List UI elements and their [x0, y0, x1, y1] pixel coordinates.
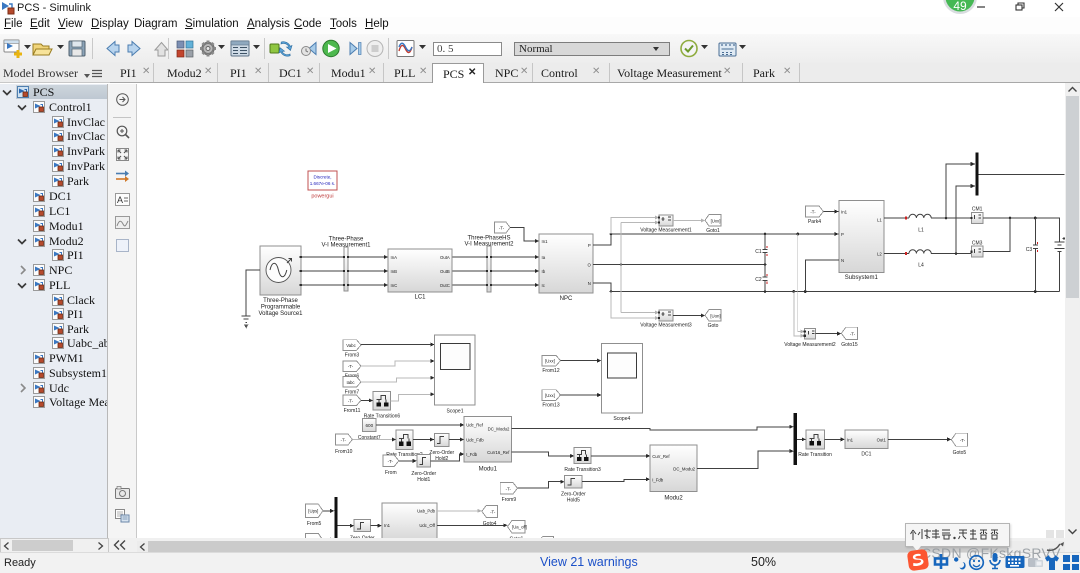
- svg-text:-T-: -T-: [341, 438, 347, 443]
- svg-text:A: A: [117, 195, 123, 205]
- svg-text:InB: InB: [391, 269, 398, 274]
- svg-text:Voltage Measurement2: Voltage Measurement2: [784, 342, 836, 348]
- svg-text:Three-Phase: Three-Phase: [263, 298, 298, 304]
- svg-text:Hold5: Hold5: [567, 497, 580, 503]
- svg-text:In1: In1: [847, 437, 854, 442]
- svg-text:From12: From12: [542, 368, 559, 374]
- svg-text:600: 600: [365, 423, 373, 428]
- svg-text:DC1: DC1: [861, 451, 871, 457]
- svg-text:-T-: -T-: [348, 398, 354, 403]
- svg-text:Uab_Pdb: Uab_Pdb: [417, 509, 436, 514]
- svg-text:CM3: CM3: [972, 240, 983, 246]
- svg-text:I_Fdb: I_Fdb: [466, 452, 478, 457]
- svg-text:DC_Modu2: DC_Modu2: [488, 427, 510, 432]
- svg-text:-T-: -T-: [388, 459, 394, 464]
- svg-text:Curr16_Ref: Curr16_Ref: [487, 450, 510, 455]
- svg-text:powergui: powergui: [311, 194, 333, 200]
- svg-text:Rate Transition: Rate Transition: [798, 452, 832, 458]
- svg-text:DC_Modu2: DC_Modu2: [673, 466, 695, 471]
- svg-text:Voltage Source1: Voltage Source1: [258, 311, 303, 317]
- svg-text:In1: In1: [841, 210, 848, 215]
- svg-text:Goto1: Goto1: [706, 228, 720, 234]
- svg-text:Goto4: Goto4: [483, 521, 497, 527]
- svg-text:In1: In1: [542, 239, 549, 244]
- svg-text:Curr_Ref: Curr_Ref: [652, 454, 670, 459]
- svg-text:V-I Measurement2: V-I Measurement2: [464, 242, 514, 248]
- svg-text:OutB: OutB: [440, 269, 450, 274]
- svg-text:Hold1: Hold1: [417, 477, 430, 483]
- svg-text:Vabc: Vabc: [346, 343, 356, 348]
- svg-text:L1: L1: [918, 228, 924, 234]
- svg-text:Iabc: Iabc: [346, 380, 355, 385]
- svg-text:Subsystem1: Subsystem1: [845, 275, 879, 281]
- svg-text:P: P: [588, 243, 591, 248]
- svg-text:Goto5: Goto5: [953, 450, 967, 456]
- svg-text:I_Fdb: I_Fdb: [652, 477, 664, 482]
- svg-text:From: From: [385, 470, 397, 476]
- svg-text:L2: L2: [877, 251, 882, 256]
- svg-text:-T-: -T-: [810, 209, 816, 214]
- svg-text:OutA: OutA: [440, 255, 450, 260]
- svg-text:C2: C2: [755, 277, 762, 283]
- svg-text:Goto: Goto: [708, 323, 719, 329]
- svg-text:Voltage Measurement3: Voltage Measurement3: [640, 323, 692, 329]
- svg-text:49: 49: [953, 0, 967, 13]
- svg-text:V-I Measurement1: V-I Measurement1: [321, 243, 371, 249]
- svg-text:InA: InA: [391, 255, 398, 260]
- svg-text:1.667e-06 s.: 1.667e-06 s.: [310, 181, 336, 186]
- svg-text:Modu1: Modu1: [479, 467, 498, 473]
- svg-text:[Uxx]: [Uxx]: [545, 359, 555, 364]
- svg-text:C3: C3: [1026, 247, 1033, 253]
- svg-text:Voltage Measurement1: Voltage Measurement1: [640, 228, 692, 234]
- svg-text:InC: InC: [391, 283, 398, 288]
- svg-text:From5: From5: [307, 521, 322, 527]
- svg-text:-T-: -T-: [490, 509, 496, 514]
- svg-text:-T-: -T-: [960, 438, 966, 443]
- svg-text:LC1: LC1: [414, 295, 426, 301]
- svg-text:Out1: Out1: [877, 437, 887, 442]
- svg-text:[Ua_off]: [Ua_off]: [512, 525, 527, 530]
- svg-text:Udc_Ref: Udc_Ref: [466, 422, 484, 427]
- svg-text:L4: L4: [918, 263, 924, 269]
- svg-text:N: N: [588, 281, 591, 286]
- svg-text:N: N: [841, 258, 844, 263]
- svg-text:Park4: Park4: [808, 219, 821, 225]
- svg-text:Scope1: Scope1: [447, 409, 464, 415]
- svg-text:OutC: OutC: [440, 283, 450, 288]
- svg-text:From11: From11: [344, 408, 361, 414]
- svg-text:[Uon]: [Uon]: [710, 313, 720, 318]
- svg-text:C1: C1: [755, 249, 762, 255]
- svg-text:Modu2: Modu2: [664, 496, 683, 502]
- svg-text:[Ups]: [Ups]: [308, 509, 318, 514]
- svg-text:From3: From3: [345, 353, 360, 359]
- svg-text:-T-: -T-: [506, 486, 512, 491]
- svg-text:Goto15: Goto15: [841, 342, 858, 348]
- svg-text:Ib: Ib: [542, 269, 546, 274]
- svg-text:-T-: -T-: [850, 332, 856, 337]
- svg-text:Ia: Ia: [542, 255, 546, 260]
- svg-text:-T-: -T-: [499, 225, 505, 230]
- svg-text:Rate Transition3: Rate Transition3: [564, 467, 601, 473]
- svg-text:NPC: NPC: [560, 296, 573, 302]
- svg-text:Programmable: Programmable: [261, 305, 301, 311]
- svg-text:From7: From7: [345, 389, 360, 395]
- svg-text:CM1: CM1: [972, 207, 983, 213]
- svg-text:[Uxx]: [Uxx]: [545, 393, 555, 398]
- svg-text:-T-: -T-: [348, 364, 354, 369]
- svg-text:Udc_Fdb: Udc_Fdb: [466, 437, 484, 442]
- svg-text:Discrete,: Discrete,: [313, 175, 331, 180]
- svg-text:Udc_Off: Udc_Off: [419, 523, 435, 528]
- svg-text:L1: L1: [877, 218, 882, 223]
- svg-text:P: P: [841, 232, 844, 237]
- svg-text:In1: In1: [384, 523, 391, 528]
- svg-text:[Uxx]: [Uxx]: [711, 218, 721, 223]
- svg-text:Scope4: Scope4: [613, 416, 630, 422]
- svg-text:From13: From13: [542, 403, 559, 409]
- svg-text:From10: From10: [335, 449, 352, 455]
- svg-text:From9: From9: [502, 497, 517, 503]
